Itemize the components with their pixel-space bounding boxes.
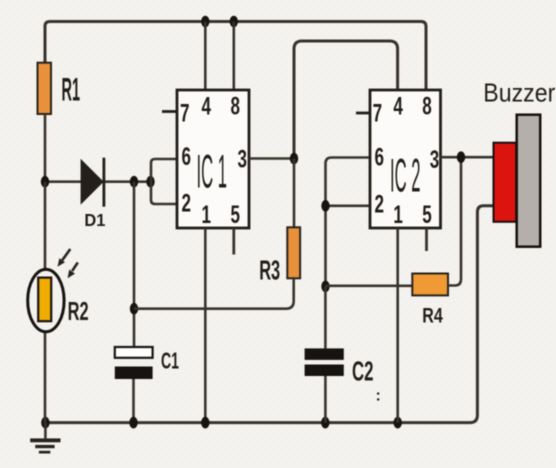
svg-text:7: 7 <box>180 100 190 128</box>
wire IC2 pin2 stub <box>326 205 371 208</box>
node D1 cathode / C1 branch <box>130 176 138 188</box>
svg-text:8: 8 <box>231 93 241 121</box>
diode D1 cathode bar <box>103 158 106 207</box>
svg-text:R3: R3 <box>259 254 280 285</box>
capacitor C1 bottom plate <box>115 367 153 380</box>
node ground / IC1 pin1 <box>201 417 209 429</box>
diode D1 <box>81 159 104 205</box>
node ground / C2 <box>321 417 329 429</box>
svg-text::: : <box>376 388 381 405</box>
svg-text:6: 6 <box>182 143 192 171</box>
LDR arrow 2 <box>68 263 78 279</box>
wire IC2 pin6 bracket to pins2 node <box>326 158 371 287</box>
svg-text:1: 1 <box>202 201 212 229</box>
wire C2 top <box>324 286 327 348</box>
svg-text:IC 1: IC 1 <box>197 145 228 198</box>
node R3 feedback / C1 <box>130 303 138 315</box>
wire IC1 pin8 to top bus <box>233 22 236 91</box>
ground symbol <box>44 423 47 439</box>
capacitor C2 top plate <box>305 348 344 360</box>
node top bus / IC1 pin4 <box>201 16 209 28</box>
resistor R3 <box>287 227 300 278</box>
buzzer gray plate <box>517 115 541 247</box>
capacitor C2 bottom plate <box>305 365 344 377</box>
capacitor C1 top plate <box>115 347 153 358</box>
wire ground bus + buzzer return <box>45 206 493 423</box>
IC2 pin7 stub <box>356 112 370 115</box>
wire R4 right up to IC2 pin3 node <box>448 157 461 285</box>
wire IC1 pins 6-2 bracket <box>151 159 177 204</box>
svg-text:3: 3 <box>238 145 248 173</box>
node ground / IC2 pin1 <box>394 417 402 429</box>
IC1 box <box>177 90 249 228</box>
node ground / C1 <box>129 417 137 429</box>
wire node to R4 <box>326 284 413 287</box>
wire IC1 pin3 down to R3 <box>293 159 296 228</box>
svg-text:D1: D1 <box>84 210 105 230</box>
svg-text:R2: R2 <box>68 298 89 326</box>
IC2 box <box>370 90 441 228</box>
IC1 pin5 stub <box>232 228 235 255</box>
wire IC2 pin1 to ground bus <box>396 228 399 423</box>
svg-text:6: 6 <box>375 144 385 172</box>
wire C2 bottom to ground bus <box>324 376 327 423</box>
svg-text:1: 1 <box>393 201 403 229</box>
svg-text:8: 8 <box>422 93 432 121</box>
wire C1 bottom to ground bus <box>132 379 135 423</box>
svg-text:C1: C1 <box>161 348 179 374</box>
svg-text:5: 5 <box>422 201 432 229</box>
LDR R2 body <box>38 278 51 322</box>
wire R1 bottom to diode node <box>44 114 47 182</box>
wire top bus from R1 top to IC2 pin 8 <box>45 22 426 91</box>
node IC2 pin2 / pin6 <box>321 200 329 212</box>
svg-text:Buzzer: Buzzer <box>483 77 555 107</box>
node D1 / IC1 pins 6-2 <box>146 176 154 188</box>
buzzer red body <box>494 143 517 222</box>
svg-text:2: 2 <box>375 191 385 219</box>
svg-text:4: 4 <box>393 93 403 121</box>
wire trigger node down to C1 <box>133 182 136 347</box>
IC1 pin7 stub <box>162 110 177 113</box>
wire IC1 pin1 to ground bus <box>204 228 207 423</box>
LDR R2 ellipse <box>28 269 64 331</box>
resistor R1 <box>38 63 52 114</box>
resistor R4 <box>412 274 448 296</box>
wire IC1 pin4 to top bus <box>204 22 207 91</box>
node IC2 pin3 / R4 / buzzer <box>457 151 465 163</box>
wire LDR bottom to ground <box>44 321 47 423</box>
wire IC2 pin3 stub to buzzer <box>441 156 494 159</box>
node IC1 pin3 / R3 / line to IC2 pin4 <box>290 153 298 165</box>
node ground / R2 <box>41 417 49 429</box>
node R4 / C2 <box>321 281 329 293</box>
IC2 pin5 stub <box>425 228 428 251</box>
svg-text:7: 7 <box>373 100 383 128</box>
IC1 pin3 stub wire to node <box>249 157 294 160</box>
wire IC1 pin3 node to IC2 pin4 <box>294 41 398 159</box>
svg-text:R4: R4 <box>422 304 443 327</box>
node R1/R2/D1 <box>41 176 49 188</box>
svg-text:4: 4 <box>202 93 212 121</box>
node top bus / IC1 pin8 <box>230 16 238 28</box>
svg-text:R1: R1 <box>62 71 81 107</box>
svg-text:5: 5 <box>231 201 241 229</box>
svg-text:3: 3 <box>430 146 440 174</box>
svg-text:IC 2: IC 2 <box>390 149 421 202</box>
wire R3 bottom to trigger node <box>134 278 294 308</box>
svg-text:C2: C2 <box>352 356 374 387</box>
LDR arrow 1 <box>58 249 71 267</box>
wire diode anode line <box>45 180 151 183</box>
wire diode node down to LDR <box>44 182 47 278</box>
svg-text:2: 2 <box>182 190 192 218</box>
